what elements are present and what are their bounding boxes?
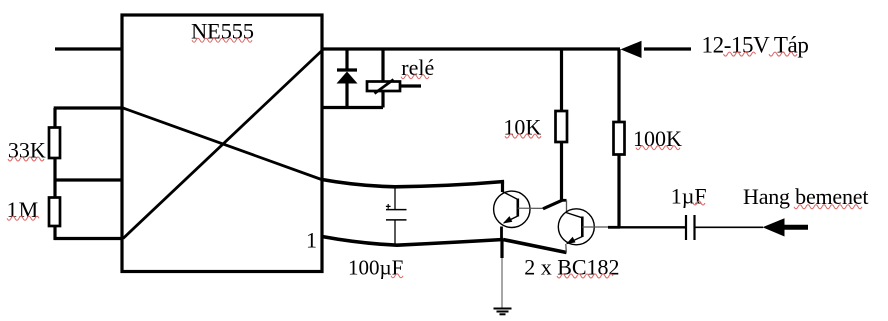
wire 33K top to box <box>54 106 122 109</box>
internal connection diagonal D1 <box>123 108 322 180</box>
wire 100K top lead <box>617 49 620 124</box>
svg-text:1: 1 <box>306 228 317 253</box>
transistor Q1 collector drop <box>501 180 504 192</box>
relay K1 actuating diagonal <box>375 80 394 94</box>
wire after arrow to label <box>644 47 691 50</box>
wire relay bottom return to box <box>322 106 383 109</box>
wire 10K bottom lead <box>560 142 563 201</box>
svg-text:1µF: 1µF <box>671 183 707 208</box>
transistor Q2 emitter with arrow <box>567 237 582 244</box>
wire lower wavy from pin 1 region <box>322 237 503 246</box>
wire pin stub top-left <box>55 47 122 50</box>
wire ground lead gray <box>501 258 503 308</box>
wire thick diagonal Q1 base to 10K junction <box>543 200 562 209</box>
capacitor C2 1uF left plate <box>685 215 687 240</box>
transistor Q2 circle <box>558 209 594 245</box>
transistor Q1 emitter with arrow <box>504 216 518 223</box>
diode D1 branch wire top <box>345 49 348 70</box>
capacitor C1 100uF top lead <box>394 187 396 210</box>
wire 1M bottom lead <box>53 226 56 240</box>
supply arrow head <box>621 41 642 58</box>
svg-text:relé: relé <box>401 55 434 80</box>
spellcheck squiggle under NE555 <box>192 38 252 42</box>
transistor Q1 circle <box>494 191 530 227</box>
wire 100K bottom lead <box>617 155 620 229</box>
resistor R3 10K body <box>556 111 568 142</box>
diode D1 triangle <box>337 72 358 84</box>
wire mid junction to box <box>54 178 122 181</box>
diode D1 branch wire bottom <box>345 83 348 108</box>
resistor R2 1M body <box>49 198 60 227</box>
transistor Q1 collector diagonal <box>503 192 518 200</box>
internal connection diagonal D2 <box>123 51 322 239</box>
wire output upper wavy from pin to Q1 collector <box>322 180 504 187</box>
ground symbol <box>494 309 512 315</box>
capacitor C1 bottom lead <box>394 220 396 244</box>
transistor Q1 base bar <box>516 199 519 217</box>
capacitor C1 bottom plate <box>386 219 407 221</box>
transistor Q2 base bar <box>581 217 584 238</box>
relay K1 contact lead <box>400 84 421 87</box>
transistor Q1 emitter lead below <box>500 227 503 241</box>
capacitor C2 1uF right plate <box>693 215 695 240</box>
wire supply rail <box>322 47 620 50</box>
input arrow tail stub <box>784 225 809 230</box>
capacitor C1 top plate <box>386 209 407 211</box>
wire vertical 33K top lead <box>53 108 56 129</box>
wire ground stub thick <box>500 240 503 259</box>
transistor Q2 base lead <box>582 226 609 228</box>
input arrow head <box>763 218 785 236</box>
resistor R4 100K body <box>614 122 625 155</box>
wire junction to Q2 collector <box>561 199 567 202</box>
svg-text:Hang bemenet: Hang bemenet <box>743 184 868 209</box>
wire C2 to input arrow <box>696 226 764 228</box>
transistor Q1 base lead <box>518 207 543 209</box>
capacitor C1 plus sign <box>386 204 391 209</box>
transistor Q2 collector vertical <box>566 200 568 212</box>
transistor Q2 emitter lead below <box>565 244 568 253</box>
wire 10K top lead <box>560 49 563 113</box>
wire sloped to Q2 emitter <box>503 240 567 253</box>
relay K1 coil body <box>367 82 400 92</box>
resistor R1 33K body <box>49 128 60 159</box>
diode D1 cathode bar <box>337 68 357 71</box>
IC U1 NE555 body <box>122 15 322 272</box>
wire 1M bottom to box <box>54 237 122 240</box>
wire relay branch top <box>381 49 384 82</box>
wire Q2 base junction to C2 <box>619 226 685 228</box>
transistor Q2 collector diagonal <box>566 213 582 218</box>
wire relay branch bottom <box>381 91 384 108</box>
wire thick base junction stub <box>608 226 620 229</box>
wire between 33K and mid junction <box>53 158 56 199</box>
